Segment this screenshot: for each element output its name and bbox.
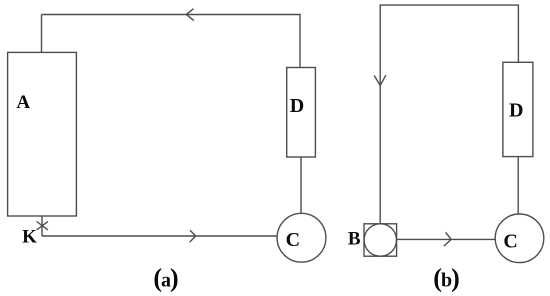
svg-text:K: K [22,227,37,248]
meter C (a) [277,213,326,262]
wire: D bottom to C top (a) [300,157,302,213]
svg-text:B: B [348,229,361,250]
meter C (b) [495,214,544,263]
wire: top rail (a) [42,15,301,68]
resistor D (a) [287,68,316,158]
svg-text:D: D [290,95,304,117]
svg-text:(b): (b) [433,264,459,293]
pump B square [364,224,397,256]
pump B circle [364,224,396,256]
svg-text:C: C [286,229,300,251]
svg-text:D: D [509,100,523,122]
arrow: current direction right on bottom rail (b) [444,232,451,246]
wire: A top lead up to top rail (a) [41,15,43,53]
wire: top rail (b) [380,5,518,224]
wire: D bottom to C top (b) [517,157,519,214]
svg-text:A: A [16,92,30,113]
switch K cross mark [37,222,48,230]
component A (box) [8,52,77,216]
arrow: current direction right on bottom rail (a) [190,230,196,242]
wire: bottom rail (a) [42,235,277,237]
svg-text:C: C [503,231,517,253]
resistor D (b) [503,62,533,156]
arrow: current direction left on top rail (a) [186,9,194,21]
arrow: current direction down on left wire (b) [374,75,386,85]
switch K lead wire [41,216,43,236]
svg-text:(a): (a) [153,264,178,293]
wire: bottom rail (b) [397,238,496,240]
